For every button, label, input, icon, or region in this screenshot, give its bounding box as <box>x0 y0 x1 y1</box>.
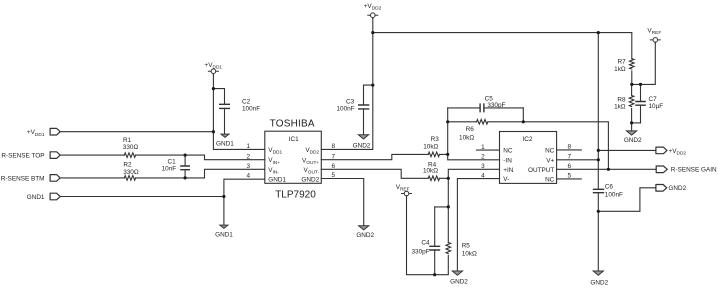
svg-text:VIN-: VIN- <box>268 167 279 176</box>
svg-text:R-SENSE GAIN: R-SENSE GAIN <box>671 167 717 174</box>
svg-text:+IN: +IN <box>503 167 514 174</box>
svg-text:VDD1: VDD1 <box>268 147 282 156</box>
svg-text:10kΩ: 10kΩ <box>423 167 438 174</box>
svg-text:C6: C6 <box>605 183 614 190</box>
svg-text:4: 4 <box>246 173 250 180</box>
svg-text:VREF: VREF <box>647 27 661 36</box>
svg-text:+VDD2: +VDD2 <box>669 148 687 157</box>
svg-text:R7: R7 <box>618 59 627 66</box>
svg-text:100nF: 100nF <box>242 106 260 113</box>
svg-text:VOUT+: VOUT+ <box>302 157 319 166</box>
svg-text:IC1: IC1 <box>289 136 299 143</box>
svg-text:TLP7920: TLP7920 <box>275 190 316 201</box>
svg-text:NC: NC <box>503 148 513 155</box>
svg-text:R-SENSE BTM: R-SENSE BTM <box>1 175 45 182</box>
svg-text:R-SENSE TOP: R-SENSE TOP <box>1 153 44 160</box>
svg-text:GND2: GND2 <box>624 137 642 144</box>
svg-text:6: 6 <box>332 163 336 170</box>
svg-text:C4: C4 <box>421 239 430 246</box>
svg-text:330pF: 330pF <box>411 249 429 256</box>
svg-text:+VDD1: +VDD1 <box>27 129 45 138</box>
svg-text:V+: V+ <box>546 157 554 164</box>
svg-text:GND2: GND2 <box>450 279 468 286</box>
svg-text:+VDD2: +VDD2 <box>364 3 382 12</box>
svg-text:100nF: 100nF <box>605 192 623 199</box>
svg-text:GND1: GND1 <box>216 140 234 147</box>
svg-text:330Ω: 330Ω <box>123 144 139 151</box>
svg-text:10nF: 10nF <box>162 165 177 172</box>
svg-text:3: 3 <box>481 163 485 170</box>
svg-text:GND1: GND1 <box>215 232 233 239</box>
svg-text:R5: R5 <box>462 242 471 249</box>
svg-text:GND2: GND2 <box>301 177 319 184</box>
svg-text:GND2: GND2 <box>590 280 608 287</box>
svg-text:C7: C7 <box>649 96 658 103</box>
svg-text:VIN+: VIN+ <box>268 157 280 166</box>
svg-text:OUTPUT: OUTPUT <box>528 167 554 174</box>
svg-text:1: 1 <box>246 143 250 150</box>
svg-text:10kΩ: 10kΩ <box>462 250 477 257</box>
svg-text:R6: R6 <box>466 126 475 133</box>
svg-text:5: 5 <box>332 172 336 179</box>
svg-text:R1: R1 <box>123 137 132 144</box>
svg-text:8: 8 <box>332 143 336 150</box>
svg-text:7: 7 <box>332 153 336 160</box>
svg-text:VDD2: VDD2 <box>305 147 319 156</box>
svg-text:C2: C2 <box>242 99 251 106</box>
svg-text:NC: NC <box>545 147 555 154</box>
svg-text:7: 7 <box>568 154 572 161</box>
svg-text:R3: R3 <box>431 136 440 143</box>
svg-text:VOUT-: VOUT- <box>303 167 319 176</box>
svg-text:VREF: VREF <box>396 184 410 193</box>
svg-text:R2: R2 <box>123 162 132 169</box>
svg-text:GND2: GND2 <box>668 185 686 192</box>
svg-text:GND1: GND1 <box>27 194 45 201</box>
svg-text:4: 4 <box>481 172 485 179</box>
svg-text:1kΩ: 1kΩ <box>614 66 626 73</box>
svg-text:IC2: IC2 <box>522 136 532 143</box>
svg-text:6: 6 <box>568 163 572 170</box>
svg-text:GND2: GND2 <box>356 232 374 239</box>
svg-text:-IN: -IN <box>503 157 512 164</box>
svg-text:100nF: 100nF <box>336 106 354 113</box>
svg-text:1: 1 <box>481 144 485 151</box>
svg-text:C3: C3 <box>346 99 355 106</box>
svg-text:3: 3 <box>246 163 250 170</box>
svg-text:2: 2 <box>246 153 250 160</box>
svg-text:10kΩ: 10kΩ <box>459 134 474 141</box>
svg-text:330pF: 330pF <box>487 102 505 109</box>
svg-text:+VDD1: +VDD1 <box>205 62 223 71</box>
svg-text:GND1: GND1 <box>268 177 286 184</box>
svg-text:330Ω: 330Ω <box>123 169 139 176</box>
svg-text:NC: NC <box>545 176 555 183</box>
svg-text:1kΩ: 1kΩ <box>614 103 626 110</box>
svg-text:2: 2 <box>481 154 485 161</box>
svg-text:10µF: 10µF <box>649 103 664 110</box>
svg-text:V-: V- <box>503 176 509 183</box>
svg-text:8: 8 <box>568 144 572 151</box>
svg-text:10kΩ: 10kΩ <box>423 144 438 151</box>
svg-text:5: 5 <box>568 173 572 180</box>
svg-text:GND2: GND2 <box>353 142 371 149</box>
svg-text:TOSHIBA: TOSHIBA <box>270 119 315 130</box>
